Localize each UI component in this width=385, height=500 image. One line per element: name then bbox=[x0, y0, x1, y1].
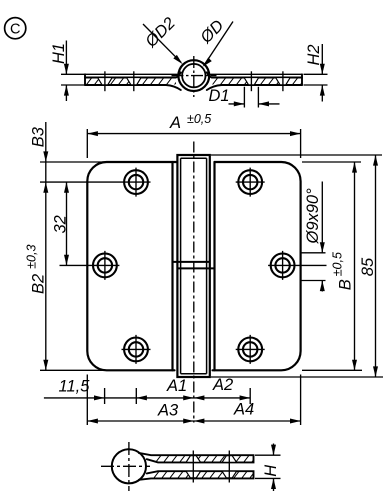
countersink profile (right leaf, hole col 4) bbox=[276, 78, 291, 85]
dimension A (overall width, top) bbox=[87, 112, 300, 158]
countersink (lower bar, x=193.3) bbox=[186, 471, 201, 478]
left leaf inner edge bbox=[171, 162, 173, 370]
leader OD bbox=[196, 17, 233, 67]
side view: left leaf hatch bbox=[82, 74, 183, 91]
side view: left leaf outline bbox=[85, 72, 181, 90]
pin centre line bbox=[193, 142, 195, 423]
svg-text:C: C bbox=[10, 21, 20, 37]
side view: right leaf hatch bbox=[208, 74, 309, 91]
extension lines right edge levels bbox=[302, 162, 362, 370]
dimension 85 (barrel height) bbox=[359, 155, 378, 377]
upper leaf bar hatch bbox=[138, 448, 263, 465]
svg-text:H1: H1 bbox=[50, 43, 68, 64]
svg-text:±0,5: ±0,5 bbox=[187, 112, 211, 126]
svg-text:B2: B2 bbox=[30, 274, 48, 294]
dimension B (leaf height) bbox=[331, 162, 358, 370]
view label C (circled letter top-left) bbox=[5, 18, 26, 39]
svg-text:±0,5: ±0,5 bbox=[331, 252, 345, 276]
svg-text:A3: A3 bbox=[157, 402, 179, 420]
svg-text:H: H bbox=[262, 465, 280, 477]
bottom extension lines bbox=[87, 375, 300, 426]
hole mid-left bbox=[60, 251, 120, 280]
svg-text:A2: A2 bbox=[212, 376, 233, 394]
dimension A4 bbox=[194, 401, 301, 424]
svg-text:A1: A1 bbox=[166, 377, 187, 395]
knuckle inner circle OD bbox=[182, 64, 205, 87]
knuckle barrel (side view) centre lines bbox=[172, 56, 217, 97]
dimension 11,5 bbox=[44, 378, 250, 401]
hole centre mark (side view x=133.8) bbox=[133, 71, 135, 91]
dimension H bbox=[255, 444, 281, 492]
hole mid-right bbox=[268, 251, 326, 280]
svg-text:85: 85 bbox=[359, 257, 377, 276]
dimension D1 bbox=[209, 87, 280, 108]
left leaf plate outline bbox=[87, 162, 177, 370]
side view: right leaf outline bbox=[207, 72, 302, 90]
hole bottom-right bbox=[236, 335, 265, 364]
extension lines left edge levels bbox=[40, 162, 107, 370]
leader OD2 bbox=[141, 14, 182, 64]
dimension B3 / B2 shared line bbox=[24, 122, 48, 370]
knuckle outer circle OD2 bbox=[178, 60, 209, 91]
barrel end circle centre lines bbox=[128, 442, 130, 491]
hole centre mark (folded x=193.3) bbox=[192, 451, 194, 483]
svg-text:±0,3: ±0,3 bbox=[24, 245, 38, 269]
hole centre mark (side view x=282.9) bbox=[282, 71, 284, 91]
right leaf plate outline bbox=[213, 162, 301, 370]
countersink callout O9x90 bbox=[301, 182, 326, 292]
dimension 32 bbox=[51, 182, 69, 265]
svg-text:H2: H2 bbox=[305, 44, 323, 65]
dimension A2 bbox=[194, 376, 250, 400]
countersink (upper bar, x=193.3) bbox=[186, 456, 201, 463]
dimension A1 bbox=[136, 377, 194, 400]
lower leaf bar hatch bbox=[136, 464, 261, 481]
svg-text:A: A bbox=[169, 114, 181, 132]
barrel mid junction lines bbox=[173, 261, 210, 263]
barrel inner wall lines bbox=[181, 158, 207, 374]
countersink (lower bar, x=229.3) bbox=[222, 471, 237, 478]
barrel height extension lines bbox=[211, 155, 383, 377]
hole top-right bbox=[236, 168, 265, 197]
countersink profile (left leaf, hole col 2) bbox=[127, 78, 142, 85]
hole bottom-left bbox=[122, 335, 151, 364]
hole top-left bbox=[40, 168, 151, 197]
hole centre mark (side view x=104.9) bbox=[104, 71, 106, 91]
upper leaf bar outline bbox=[139, 453, 254, 463]
dimension H1 bbox=[50, 41, 85, 102]
hole centre mark (folded x=229.3) bbox=[228, 451, 230, 483]
lower leaf bar outline bbox=[139, 471, 254, 480]
svg-text:B3: B3 bbox=[29, 126, 47, 147]
hole centre mark (side view x=251.4) bbox=[250, 71, 252, 91]
dimension H2 bbox=[304, 44, 328, 102]
svg-text:Ø9x90°: Ø9x90° bbox=[304, 188, 322, 245]
countersink profile (right leaf, hole col 3) bbox=[244, 78, 259, 85]
countersink (upper bar, x=229.3) bbox=[222, 456, 237, 463]
countersink profile (left leaf, hole col 1) bbox=[98, 78, 113, 85]
right leaf inner edge bbox=[213, 162, 215, 370]
svg-text:B: B bbox=[337, 279, 355, 290]
barrel outer rectangle bbox=[177, 155, 209, 377]
dimension A3 bbox=[87, 402, 300, 424]
barrel end circle bbox=[112, 449, 146, 483]
svg-text:D1: D1 bbox=[209, 87, 230, 105]
svg-text:32: 32 bbox=[51, 215, 69, 233]
svg-text:A4: A4 bbox=[233, 401, 254, 419]
svg-text:11,5: 11,5 bbox=[59, 378, 91, 396]
